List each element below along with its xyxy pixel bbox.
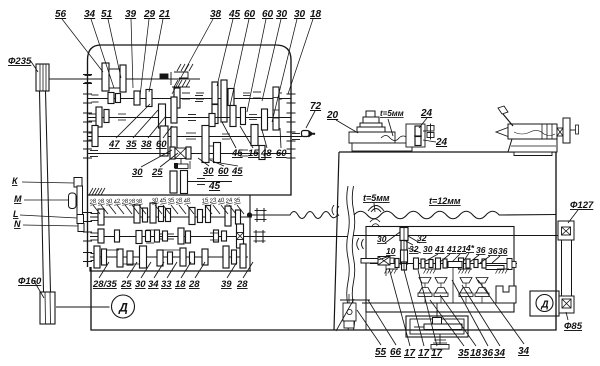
svg-text:24: 24 [435, 137, 448, 148]
bevel pair 4 [476, 278, 488, 284]
svg-text:51: 51 [101, 9, 113, 20]
motor link wire [558, 302, 560, 304]
svg-text:20: 20 [326, 110, 339, 121]
svg-text:15: 15 [248, 148, 259, 159]
svg-text:32: 32 [417, 233, 427, 243]
svg-text:Д: Д [118, 301, 128, 315]
svg-text:29: 29 [143, 9, 156, 20]
svg-text:45: 45 [231, 166, 243, 177]
svg-text:60: 60 [276, 148, 287, 159]
svg-text:48: 48 [260, 148, 272, 159]
gear K [74, 178, 82, 188]
shift fork under clutch [180, 159, 182, 165]
svg-text:47: 47 [108, 139, 120, 150]
svg-text:34: 34 [148, 279, 159, 290]
svg-text:30: 30 [132, 167, 143, 178]
tool post [366, 111, 375, 117]
right motor box [530, 291, 559, 316]
tailstock body [508, 139, 557, 152]
gears on shaft II [108, 93, 114, 104]
clutch X on shaft V [170, 147, 175, 159]
half nut bracket [496, 286, 516, 303]
rack bar [424, 324, 462, 330]
svg-text:41: 41 [446, 244, 457, 254]
gears on feed shaft 1 [98, 209, 104, 225]
svg-text:17: 17 [404, 348, 416, 359]
wall bearing caps [83, 74, 92, 76]
svg-text:30: 30 [276, 9, 288, 20]
right wall bearing caps [287, 93, 296, 95]
half-nut rail bar [448, 262, 462, 268]
rack-and-pinion box outer [406, 316, 468, 337]
label t=5mm leader [374, 203, 375, 212]
worm shaft bar [361, 259, 378, 264]
svg-text:30: 30 [203, 166, 214, 177]
gears on shaft III [96, 107, 102, 127]
svg-text:36: 36 [498, 246, 508, 256]
svg-text:60: 60 [156, 139, 167, 150]
pulley D160 [40, 292, 55, 324]
leadscrew end bracket [340, 299, 362, 301]
svg-text:72: 72 [310, 101, 322, 112]
svg-text:38: 38 [210, 9, 222, 20]
adjusting screw under apron [439, 334, 441, 344]
svg-text:39: 39 [125, 9, 137, 20]
apron housing [366, 227, 514, 313]
worm 10 [378, 257, 390, 266]
svg-text:35: 35 [126, 139, 137, 150]
svg-text:24: 24 [420, 108, 433, 119]
motor shaft wire [56, 306, 110, 308]
apron gears on worm shaft [395, 259, 399, 268]
svg-text:60: 60 [262, 9, 274, 20]
feed shaft 3 wire [90, 256, 248, 258]
svg-text:33: 33 [161, 279, 172, 290]
svg-text:36: 36 [482, 348, 494, 359]
leadscrew exit bearings [256, 208, 258, 222]
leadscrew wire t=12mm [252, 212, 338, 219]
gear N [78, 224, 84, 232]
saddle body [349, 132, 395, 143]
t=5mm kink mark [368, 206, 384, 213]
friction clutch on shaft I [102, 63, 109, 91]
bevel pair 1 [419, 278, 431, 284]
svg-text:55: 55 [375, 347, 387, 358]
feed reverse dashes [160, 233, 166, 235]
svg-text:60: 60 [218, 166, 229, 177]
gears on spindle [92, 126, 98, 147]
gears on feed shaft 3 [94, 246, 100, 268]
worm shaft end bracket [507, 259, 512, 270]
pulley bottom right [559, 296, 574, 313]
svg-text:Ф127: Ф127 [570, 200, 594, 211]
leadscrew coupling [247, 212, 252, 217]
leadscrew gear stack 30/32 [400, 228, 408, 241]
shaft III wire [87, 117, 291, 119]
belt right [561, 240, 563, 296]
svg-text:66: 66 [390, 347, 402, 358]
svg-text:35: 35 [458, 348, 470, 359]
bevel pair 3 [460, 278, 472, 284]
svg-text:t=12мм: t=12мм [429, 196, 461, 206]
svg-text:17: 17 [431, 348, 443, 359]
main motor [112, 295, 135, 318]
feed rod exit bearings [255, 230, 257, 243]
shaft VII wire [186, 181, 232, 183]
svg-text:45: 45 [208, 181, 221, 192]
pulley D235 [36, 64, 49, 91]
svg-text:Д: Д [540, 300, 548, 311]
cross slide screw wave [381, 136, 408, 141]
gear pair 45 on shaft VII [170, 171, 177, 193]
svg-text:Ф85: Ф85 [564, 321, 583, 332]
svg-text:Ф160: Ф160 [18, 276, 42, 287]
clutch X on feed output [237, 224, 244, 248]
svg-text:28/35: 28/35 [92, 279, 117, 290]
shaft I wire [49, 78, 200, 80]
break mark on leadscrew [332, 205, 339, 216]
svg-text:56: 56 [55, 9, 67, 20]
feed drive motor [536, 295, 553, 312]
tailstock barrel [508, 124, 557, 139]
saddle base [352, 143, 412, 151]
feed rod wire [248, 236, 348, 238]
apron front box [406, 124, 425, 147]
svg-text:28: 28 [188, 279, 200, 290]
bevel pair 2 [435, 278, 447, 284]
reflection arcs at break [357, 238, 364, 250]
handwheel crank [423, 130, 427, 132]
rack pinion gear [433, 318, 442, 326]
svg-text:М: М [14, 194, 22, 204]
svg-text:t=5мм: t=5мм [363, 193, 390, 203]
svg-text:41: 41 [434, 244, 445, 254]
gear L [77, 215, 84, 224]
tailstock handwheel [563, 118, 570, 143]
bearing hatch combs [386, 268, 398, 270]
headstock gearbox housing [87, 45, 291, 267]
break squiggle right [352, 186, 355, 330]
handwheel gears 24 [415, 126, 421, 136]
svg-text:34: 34 [494, 348, 506, 359]
band brake [160, 74, 168, 79]
tailstock screw hub [557, 128, 563, 136]
feed shaft 2 wire [90, 236, 248, 238]
belt to motor [40, 91, 44, 292]
svg-text:4*: 4* [465, 243, 475, 253]
svg-text:21: 21 [158, 9, 171, 20]
feed rod to motor belt pulley top [558, 221, 574, 240]
svg-text:39: 39 [221, 279, 232, 290]
svg-text:10: 10 [386, 246, 396, 256]
svg-text:Ф235: Ф235 [8, 56, 32, 67]
svg-text:18: 18 [175, 279, 186, 290]
svg-text:38: 38 [141, 139, 152, 150]
bed left edge [334, 152, 339, 330]
apron lower rail wire [362, 302, 510, 304]
lathe bed [91, 152, 556, 330]
feed shaft 1 wire [90, 216, 252, 218]
feed gearbox housing [90, 267, 251, 271]
svg-text:34: 34 [518, 346, 530, 357]
svg-text:17: 17 [418, 348, 430, 359]
shaft V wire [88, 153, 291, 155]
leadscrew wire right part [354, 211, 556, 219]
svg-text:25: 25 [120, 279, 132, 290]
feed gearbox right wall [249, 195, 251, 271]
svg-text:30: 30 [135, 279, 146, 290]
feed gearbox wall hatch [89, 188, 93, 195]
svg-text:18: 18 [470, 348, 482, 359]
svg-text:L: L [13, 209, 19, 219]
tailstock centre [496, 128, 508, 137]
shaft II wire [87, 98, 291, 100]
svg-text:45: 45 [231, 148, 243, 159]
gears on feed shaft 2 [98, 229, 104, 243]
svg-text:36: 36 [488, 246, 498, 256]
svg-text:30: 30 [294, 9, 306, 20]
gears on shaft V right [259, 146, 265, 160]
svg-text:60: 60 [244, 9, 256, 20]
svg-text:N: N [14, 219, 21, 229]
pulley M [69, 193, 77, 209]
pinion vertical wire [452, 268, 454, 304]
spindle wire [87, 136, 302, 138]
rack-and-pinion box inner [410, 319, 464, 334]
break squiggle left [347, 186, 350, 330]
apron worm shaft wire [370, 263, 517, 265]
svg-text:34: 34 [84, 9, 96, 20]
double gear 30-60 on shaft V [202, 126, 209, 163]
svg-text:45: 45 [228, 9, 241, 20]
tailstock clamp handle [503, 114, 513, 126]
svg-text:18: 18 [310, 9, 322, 20]
svg-text:36: 36 [476, 245, 486, 255]
svg-text:25: 25 [151, 167, 163, 178]
bracket shaft wire [365, 312, 367, 330]
svg-text:28: 28 [236, 279, 248, 290]
svg-text:t=5мм: t=5мм [380, 109, 404, 118]
selector slide plate [77, 186, 83, 221]
rack pinion shaft wire [436, 303, 438, 324]
svg-text:30: 30 [423, 244, 433, 254]
spindle nose centre [302, 131, 310, 137]
